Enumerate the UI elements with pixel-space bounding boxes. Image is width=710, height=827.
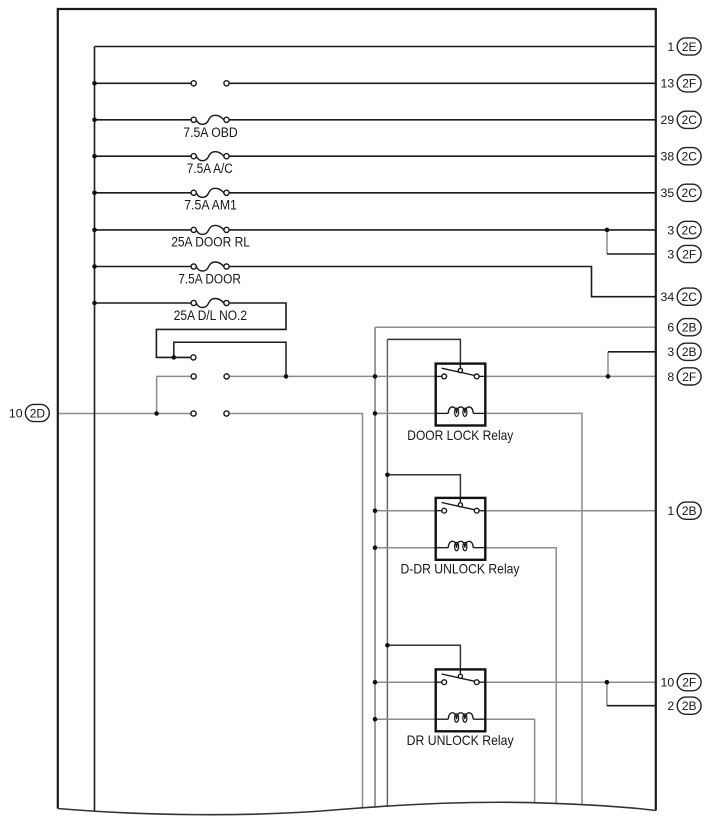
relay DOOR LOCK Relay bbox=[436, 363, 486, 426]
switch contact row 10 2D bbox=[191, 411, 196, 416]
svg-text:13: 13 bbox=[661, 77, 675, 91]
svg-text:38: 38 bbox=[661, 150, 675, 164]
wire fuse D/L NO.2 row left bbox=[95, 302, 192, 304]
svg-text:3: 3 bbox=[667, 223, 674, 237]
connector pin 3 2B bbox=[667, 343, 701, 360]
fuse 7.5A DOOR bbox=[191, 262, 229, 271]
fuse 25A D/L NO.2 bbox=[191, 299, 229, 308]
fuse 7.5A AM1 bbox=[191, 188, 229, 197]
junction y682 x375 bbox=[373, 680, 378, 685]
svg-text:2: 2 bbox=[667, 699, 674, 713]
fuse 25A DOOR RL bbox=[191, 225, 229, 234]
wire DOOR LOCK relay common jog bbox=[387, 339, 460, 363]
wire DR UNLOCK switch row left bbox=[375, 681, 436, 683]
svg-text:25A D/L NO.2: 25A D/L NO.2 bbox=[174, 308, 247, 323]
wire D-DR UNLOCK relay common jog bbox=[387, 475, 460, 498]
wire row 3 2F bbox=[607, 253, 656, 255]
wire main bus vertical x94 bbox=[94, 47, 96, 812]
connector pin 3 2F bbox=[667, 245, 701, 262]
wire bus node B1 vertical x375 bbox=[374, 327, 376, 808]
svg-text:DR UNLOCK Relay: DR UNLOCK Relay bbox=[407, 733, 514, 748]
wire D-DR UNLOCK coil right bbox=[485, 548, 556, 804]
svg-text:1: 1 bbox=[667, 40, 674, 54]
svg-text:34: 34 bbox=[661, 290, 675, 304]
wire row 34 2C left bbox=[95, 266, 192, 268]
wire row 2 2B bbox=[607, 705, 656, 707]
wire row 38 2C left bbox=[95, 155, 192, 157]
junction y474 x387 bbox=[385, 473, 390, 478]
junction bus x94 y119.8 bbox=[92, 118, 97, 123]
svg-text:3: 3 bbox=[667, 247, 674, 261]
svg-text:7.5A OBD: 7.5A OBD bbox=[183, 125, 238, 140]
wire D-DR UNLOCK switch row left bbox=[375, 510, 436, 512]
svg-text:2F: 2F bbox=[682, 676, 696, 690]
wire row 35 2C left bbox=[95, 192, 192, 194]
wire row 3 2C left bbox=[95, 229, 192, 231]
junction y413 x156 bbox=[154, 411, 159, 416]
svg-text:2F: 2F bbox=[682, 247, 696, 261]
svg-text:7.5A A/C: 7.5A A/C bbox=[187, 161, 233, 176]
svg-text:35: 35 bbox=[661, 186, 675, 200]
wire switch output row y376 left bbox=[157, 375, 192, 377]
wire DR UNLOCK coil left bbox=[375, 718, 436, 720]
wire row 1 2E bbox=[95, 46, 656, 48]
junction y719 x375 bbox=[373, 717, 378, 722]
wire relay common bus x387 bbox=[386, 339, 388, 807]
svg-text:7.5A AM1: 7.5A AM1 bbox=[184, 198, 237, 213]
wire row 13 2F left bbox=[95, 82, 192, 84]
wire 6 2B feed row bbox=[375, 326, 656, 328]
svg-text:2C: 2C bbox=[682, 113, 698, 127]
wire branch y342 jog bbox=[174, 342, 286, 376]
fuse 7.5A OBD bbox=[191, 115, 229, 124]
wire DR UNLOCK coil right bbox=[485, 719, 534, 802]
wire branch 10 2F to 2 2B vertical bbox=[606, 682, 608, 706]
connector pin 38 2C bbox=[661, 148, 702, 165]
svg-text:2D: 2D bbox=[30, 406, 46, 420]
junction y547 x375 bbox=[373, 545, 378, 550]
junction bus x94 y83.3 bbox=[92, 81, 97, 86]
connector pin 13 2F bbox=[661, 75, 702, 92]
wire branch 3 2C to 3 2F vertical bbox=[606, 230, 608, 254]
connector pin 34 2C bbox=[661, 288, 702, 305]
connector pin 6 2B bbox=[667, 319, 701, 336]
wire bottom page-cut curve bbox=[58, 802, 656, 814]
junction y645 x387 bbox=[385, 643, 390, 648]
wire 10 2D row bbox=[58, 413, 191, 415]
connector pin 10 2F bbox=[661, 674, 702, 691]
junction 10 2F bbox=[605, 680, 610, 685]
svg-text:6: 6 bbox=[667, 321, 674, 335]
junction bus x94 y229.9 bbox=[92, 228, 97, 233]
svg-text:3: 3 bbox=[667, 345, 674, 359]
wire DR UNLOCK relay common jog bbox=[387, 645, 460, 669]
wire row 29 2C right bbox=[229, 119, 656, 121]
relay DR UNLOCK Relay bbox=[436, 668, 486, 731]
wire jog x156 y376-y413 bbox=[156, 376, 158, 413]
connector pin 29 2C bbox=[661, 111, 702, 128]
junction bus x94 y192.8 bbox=[92, 191, 97, 196]
wire switch output row y376 to DOOR LOCK relay bbox=[229, 375, 436, 377]
svg-text:2C: 2C bbox=[682, 223, 698, 237]
wire D-DR UNLOCK coil left bbox=[375, 547, 436, 549]
svg-text:25A DOOR RL: 25A DOOR RL bbox=[171, 235, 250, 250]
svg-text:2E: 2E bbox=[682, 40, 697, 54]
connector pin 10 2D bbox=[9, 404, 49, 421]
wire fuse D/L NO.2 output jog bbox=[156, 303, 286, 357]
svg-text:2B: 2B bbox=[682, 504, 697, 518]
wire 10 2D row right segment bbox=[229, 414, 362, 809]
wire DOOR LOCK coil right bbox=[485, 413, 582, 804]
svg-text:DOOR LOCK Relay: DOOR LOCK Relay bbox=[407, 428, 513, 443]
junction bus x94 y156.2 bbox=[92, 154, 97, 159]
connector pin 2 2B bbox=[667, 697, 701, 714]
fuse 7.5A A/C bbox=[191, 152, 229, 161]
switch contact row 13 2F bbox=[191, 81, 196, 86]
svg-text:10: 10 bbox=[661, 676, 675, 690]
connector pin 1 2E bbox=[667, 38, 701, 55]
wire row 34 2C jog bbox=[229, 267, 656, 297]
junction y510 x375 bbox=[373, 508, 378, 513]
svg-text:2B: 2B bbox=[682, 699, 697, 713]
svg-text:2C: 2C bbox=[682, 150, 698, 164]
junction y376 x286 bbox=[284, 374, 289, 379]
svg-text:2F: 2F bbox=[682, 77, 696, 91]
junction bus x94 y303 bbox=[92, 301, 97, 306]
switch contact row y357 bbox=[191, 355, 196, 360]
wire row 3 2B bbox=[608, 351, 656, 353]
svg-text:2C: 2C bbox=[682, 186, 698, 200]
switch contact row y376 bbox=[191, 374, 196, 379]
svg-text:2B: 2B bbox=[682, 345, 697, 359]
svg-text:8: 8 bbox=[667, 370, 674, 384]
junction 3 2C bbox=[605, 228, 610, 233]
wire row 29 2C left bbox=[95, 119, 192, 121]
junction bus x94 y266.5 bbox=[92, 264, 97, 269]
wire row 35 2C right bbox=[229, 192, 656, 194]
wire row 38 2C right bbox=[229, 155, 656, 157]
svg-text:7.5A DOOR: 7.5A DOOR bbox=[178, 271, 241, 286]
wire DOOR LOCK coil left bbox=[375, 412, 436, 414]
svg-text:2B: 2B bbox=[682, 321, 697, 335]
junction y357 bbox=[172, 355, 177, 360]
connector pin 3 2C bbox=[667, 221, 701, 238]
junction 8 2F bbox=[606, 374, 611, 379]
wire 8 2F row right of DOOR LOCK relay bbox=[485, 375, 656, 377]
svg-text:2C: 2C bbox=[682, 290, 698, 304]
connector pin 35 2C bbox=[661, 184, 702, 201]
svg-text:D-DR UNLOCK Relay: D-DR UNLOCK Relay bbox=[401, 561, 520, 576]
svg-text:29: 29 bbox=[661, 113, 675, 127]
svg-text:2F: 2F bbox=[682, 370, 696, 384]
wire branch 3 2B to 8 2F vertical bbox=[607, 352, 609, 377]
wire row 13 2F right bbox=[229, 82, 656, 84]
connector pin 1 2B bbox=[667, 502, 701, 519]
connector pin 8 2F bbox=[667, 368, 701, 385]
wire 1 2B row bbox=[485, 510, 656, 512]
junction y413 x375 bbox=[373, 411, 378, 416]
relay D-DR UNLOCK Relay bbox=[436, 497, 486, 560]
svg-text:10: 10 bbox=[9, 406, 23, 420]
junction y376 x375 bbox=[373, 374, 378, 379]
wire 10 2F row bbox=[485, 681, 656, 683]
svg-text:1: 1 bbox=[667, 504, 674, 518]
wire row 3 2C right bbox=[229, 229, 656, 231]
